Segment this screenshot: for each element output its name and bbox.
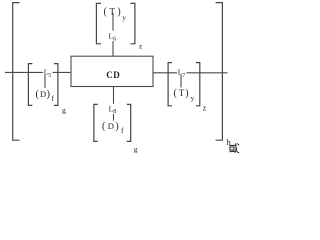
drug (D)f (left group) (36, 89, 55, 103)
outer bracket left (13, 3, 20, 141)
subscript g (bottom group) (134, 144, 138, 153)
svg-text:7: 7 (182, 73, 185, 79)
svg-text:D: D (40, 89, 46, 99)
svg-text:z: z (139, 41, 143, 50)
svg-text:CD: CD (106, 70, 120, 80)
subscript z (top group) (139, 41, 143, 50)
svg-text:y: y (122, 14, 126, 22)
subscript h (outer repeat) (227, 137, 232, 147)
svg-text:y: y (191, 94, 195, 102)
bottom repeat bracket close (127, 104, 131, 141)
drug (D)f (bottom group) (102, 121, 124, 135)
svg-text:): ) (115, 121, 118, 132)
targeting ligand (T)y (top) (104, 6, 127, 22)
svg-text:(: ( (36, 89, 40, 100)
svg-text:(: ( (174, 88, 178, 99)
top repeat bracket close (130, 3, 135, 43)
svg-text:g: g (134, 144, 138, 153)
right repeat bracket open (168, 63, 172, 106)
bottom arm bond CD to L8 to D (113, 87, 115, 121)
left repeat bracket open (28, 64, 32, 106)
outer bracket right (216, 3, 223, 141)
svg-text:g: g (62, 106, 66, 115)
svg-text:): ) (117, 7, 120, 18)
svg-text:): ) (185, 88, 188, 99)
linker L5 (43, 67, 53, 79)
backbone wire left segment (5, 71, 71, 73)
svg-text:D: D (108, 121, 114, 131)
targeting ligand (T)y (right group) (174, 88, 195, 103)
bond L7 to T (180, 75, 182, 88)
backbone wire right segment (153, 72, 228, 74)
svg-text:5: 5 (48, 73, 51, 79)
label 或 (or) drawn as strokes (229, 143, 239, 153)
bond L5 to D (44, 75, 46, 88)
svg-text:): ) (47, 89, 50, 100)
svg-text:z: z (203, 103, 207, 112)
svg-text:T: T (179, 88, 185, 98)
right repeat bracket close (196, 63, 200, 106)
bottom repeat bracket open (94, 104, 98, 141)
subscript z (right group) (203, 103, 207, 112)
svg-text:f: f (52, 94, 55, 103)
top arm bond (T)y to L6 to CD (112, 13, 114, 56)
left repeat bracket close (54, 64, 58, 106)
svg-text:6: 6 (113, 37, 116, 43)
svg-text:8: 8 (113, 109, 116, 115)
linker L8 (108, 104, 118, 115)
CD box (cyclodextrin core) (71, 56, 153, 86)
label CD (106, 70, 120, 80)
svg-text:(: ( (104, 7, 108, 18)
top repeat bracket open (96, 3, 101, 43)
linker L6 (108, 31, 118, 43)
linker L7 (177, 67, 187, 79)
subscript g (left group) (62, 106, 66, 115)
svg-text:f: f (121, 126, 124, 135)
